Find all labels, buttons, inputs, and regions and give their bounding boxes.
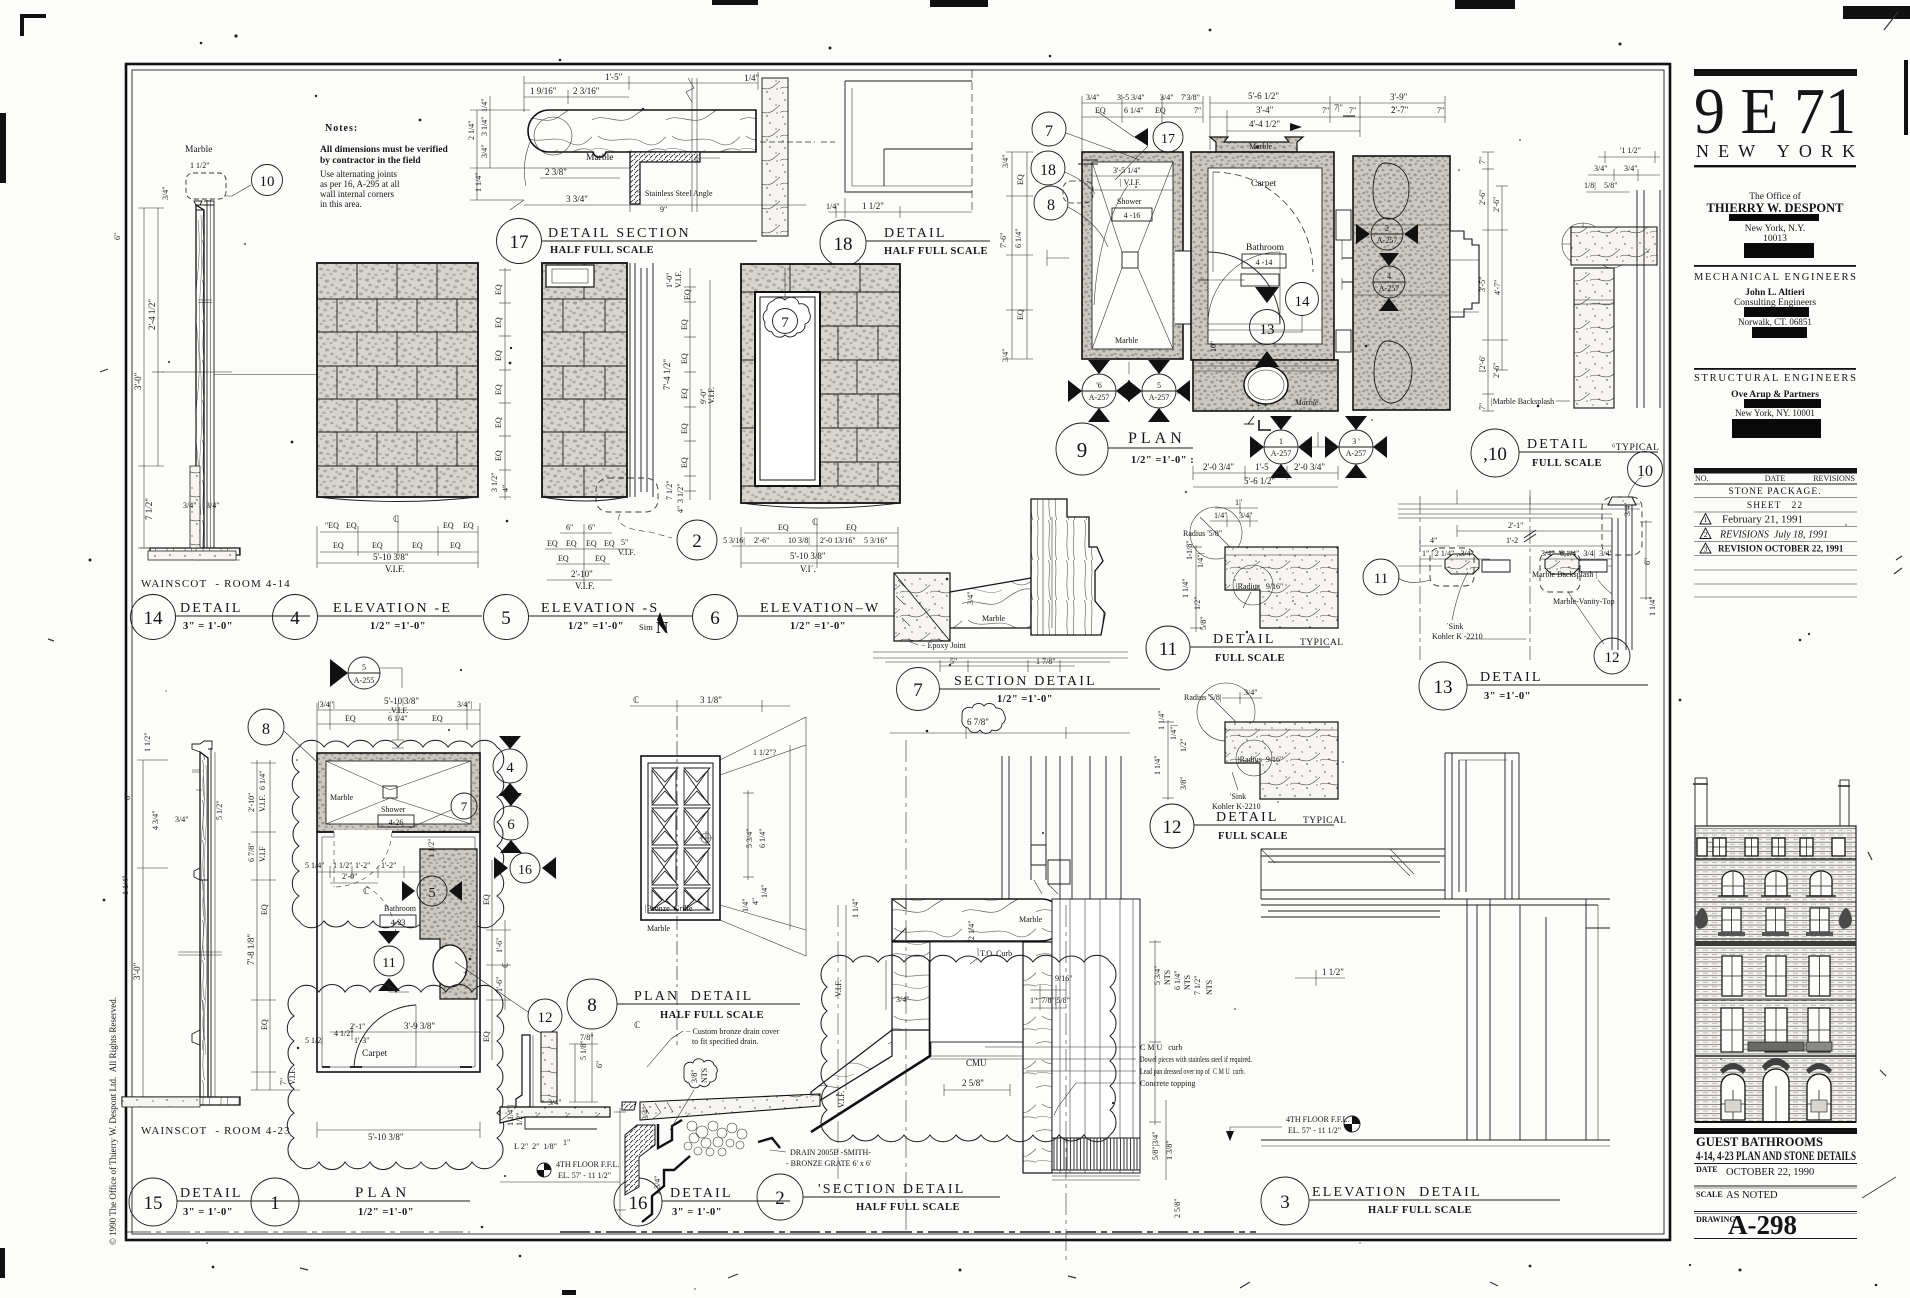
svg-text:EQ: EQ xyxy=(450,541,461,550)
svg-text:1 1/8": 1 1/8" xyxy=(1185,541,1194,561)
svg-text:|Bronze Grille: |Bronze Grille xyxy=(645,904,693,913)
sheet border frame xyxy=(126,64,1670,1240)
svg-text:Marble: Marble xyxy=(1019,915,1043,924)
top dim line xyxy=(524,72,758,112)
svg-text:1 1/4": 1 1/4" xyxy=(474,173,483,193)
svg-text:FULL SCALE: FULL SCALE xyxy=(1532,458,1602,469)
mid rail xyxy=(162,372,327,375)
svg-text:V.I.F.: V.I.F. xyxy=(674,271,683,288)
svg-text:2 1/4": 2 1/4" xyxy=(967,921,976,941)
revision cloud 7 in niche xyxy=(763,297,810,337)
svg-text:− Custom bronze drain cover: − Custom bronze drain cover xyxy=(686,1027,780,1036)
svg-text:6 1/4": 6 1/4" xyxy=(758,829,767,849)
svg-text:EQ: EQ xyxy=(778,523,789,532)
marker 5 diamond xyxy=(402,881,462,901)
rev 1 xyxy=(1700,514,1711,525)
svg-text:V.I.F.: V.I.F. xyxy=(834,980,843,997)
svg-text:13: 13 xyxy=(1260,322,1275,338)
svg-text:9/16": 9/16" xyxy=(1055,974,1073,983)
svg-text:L 2" 2" 1/8": L 2" 2" 1/8" xyxy=(514,1142,557,1151)
vertical band xyxy=(1574,268,1614,408)
door jamb right of vanity xyxy=(1450,231,1479,317)
svg-text:EQ: EQ xyxy=(346,521,357,530)
svg-text:3/4": 3/4" xyxy=(966,592,975,606)
svg-text:7: 7 xyxy=(461,799,468,814)
svg-text:EQ: EQ xyxy=(1016,309,1025,320)
stray scan diagonal xyxy=(1862,1177,1896,1198)
wainscot detail room 4-14 xyxy=(113,145,327,560)
svg-text:7": 7" xyxy=(1478,157,1487,164)
toilet alcove xyxy=(1193,360,1338,424)
svg-text:STONE PACKAGE.: STONE PACKAGE. xyxy=(1728,487,1821,497)
svg-text:3: 3 xyxy=(1280,1192,1290,1213)
svg-text:[2'-6': [2'-6' xyxy=(1478,355,1487,372)
svg-text:NTS: NTS xyxy=(1163,970,1172,985)
revision cloud xyxy=(821,955,1116,1141)
svg-text:3/4": 3/4" xyxy=(1623,503,1632,517)
svg-text:REVISION OCTOBER 22, 1991: REVISION OCTOBER 22, 1991 xyxy=(1718,544,1844,554)
svg-text:V.I.F.: V.I.F. xyxy=(258,795,267,812)
svg-text:C M U curb: C M U curb xyxy=(1140,1043,1182,1052)
svg-text:A-257: A-257 xyxy=(1149,393,1169,402)
svg-text:6 1/4": 6 1/4" xyxy=(1014,229,1023,249)
svg-text:5 3/16": 5 3/16" xyxy=(864,536,888,545)
svg-text:Marble: Marble xyxy=(586,153,613,163)
ground floor carved pediments xyxy=(1720,1063,1746,1074)
svg-text:1/2": 1/2" xyxy=(1179,739,1188,753)
marker 11 diamond xyxy=(378,931,400,991)
svg-text:WAINSCOT - ROOM 4-14: WAINSCOT - ROOM 4-14 xyxy=(141,578,291,590)
svg-text:7'-8 1/8": 7'-8 1/8" xyxy=(246,934,256,965)
svg-text:A-298: A-298 xyxy=(1728,1210,1797,1240)
drain body thick xyxy=(658,1120,682,1148)
left dims xyxy=(470,96,630,200)
dims xyxy=(1420,525,1612,552)
svg-text:2'-0": 2'-0" xyxy=(342,872,357,881)
svg-text:1: 1 xyxy=(270,1193,280,1214)
svg-text:3/4": 3/4" xyxy=(1086,93,1100,102)
svg-text:1/2" =1'-0": 1/2" =1'-0" xyxy=(568,621,624,632)
notes block xyxy=(320,123,448,209)
svg-text:2: 2 xyxy=(692,531,702,552)
svg-text:Use alternating joints: Use alternating joints xyxy=(320,169,397,179)
svg-text:6 7/8": 6 7/8" xyxy=(247,843,256,863)
svg-text:5: 5 xyxy=(429,886,436,901)
svg-text:5'-10 3/8": 5'-10 3/8" xyxy=(790,551,826,561)
1 1/2" dim xyxy=(1295,970,1345,986)
right short ticks xyxy=(1586,927,1610,929)
marker 17 with arrow xyxy=(1134,128,1148,146)
title block top bar xyxy=(1694,69,1857,76)
svg-text:6": 6" xyxy=(566,523,573,532)
svg-text:- BRONZE GRATE 6' x 6': - BRONZE GRATE 6' x 6' xyxy=(786,1159,872,1168)
svg-text:2 3/16": 2 3/16" xyxy=(573,86,600,96)
interior joint lines xyxy=(1353,225,1450,295)
svg-text:Kohler K -2210: Kohler K -2210 xyxy=(1432,632,1483,641)
svg-text:Marble: Marble xyxy=(982,614,1006,623)
svg-text:1 1/2": 1 1/2" xyxy=(190,161,210,170)
svg-text:3'-0": 3'-0" xyxy=(132,962,142,980)
side markers 4 6 16 xyxy=(493,736,556,883)
window boxes xyxy=(1718,932,1745,936)
svg-text:ELEVATION DETAIL: ELEVATION DETAIL xyxy=(1312,1185,1482,1200)
svg-text:ℂ: ℂ xyxy=(634,1020,640,1030)
svg-text:3/4": 3/4" xyxy=(1624,164,1638,173)
svg-text:1 1/4": 1 1/4" xyxy=(1157,711,1166,731)
svg-text:V.I.F.: V.I.F. xyxy=(575,581,594,591)
svg-text:1'-5: 1'-5 xyxy=(1255,462,1269,472)
svg-text:John L. Altieri: John L. Altieri xyxy=(1745,288,1805,298)
svg-text:|Marble Backsplash: |Marble Backsplash xyxy=(1491,397,1554,406)
interior markers 13 / 14 xyxy=(1250,283,1319,368)
svg-text:1/2" =1'-0": 1/2" =1'-0" xyxy=(358,1207,414,1218)
svg-text:DRAIN 2005B -SMITH-: DRAIN 2005B -SMITH- xyxy=(790,1148,871,1157)
svg-text:ℂ: ℂ xyxy=(501,962,510,968)
svg-text:Marble: Marble xyxy=(1249,142,1273,151)
marble counter slab with bullnose xyxy=(528,110,756,157)
svg-text:12: 12 xyxy=(1163,817,1182,838)
svg-text:8: 8 xyxy=(587,995,597,1016)
facade body xyxy=(1695,826,1856,1122)
svg-text:EQ: EQ xyxy=(482,1031,491,1042)
slab with bullnose xyxy=(1225,547,1338,628)
svg-text:Marble: Marble xyxy=(185,145,212,155)
svg-text:HALF FULL SCALE: HALF FULL SCALE xyxy=(856,1202,960,1213)
svg-text:A-257: A-257 xyxy=(1377,236,1397,245)
svg-text:Concrete topping: Concrete topping xyxy=(1140,1079,1195,1088)
svg-text:HALF FULL SCALE: HALF FULL SCALE xyxy=(1368,1205,1472,1216)
svg-text:3'-5": 3'-5" xyxy=(1478,277,1487,292)
left marble wall xyxy=(892,942,930,1030)
svg-text:EQ: EQ xyxy=(432,714,443,723)
base lines below xyxy=(873,652,1128,662)
svg-text:Bathroom: Bathroom xyxy=(1246,243,1285,253)
door gap in right wall xyxy=(1175,251,1191,324)
svg-text:2 5/8": 2 5/8" xyxy=(1173,1199,1182,1219)
svg-text:SHEET 22: SHEET 22 xyxy=(1747,501,1803,511)
svg-text:Carpet: Carpet xyxy=(362,1049,388,1059)
svg-text:V.I.F.: V.I.F. xyxy=(618,548,635,557)
marble threshold above bathroom xyxy=(1210,137,1303,152)
svg-text:TYPICAL: TYPICAL xyxy=(1303,816,1347,826)
tile joints right part xyxy=(741,264,900,486)
svg-text:18: 18 xyxy=(1040,162,1056,179)
door from shower vestibule, swing arc xyxy=(1208,252,1280,324)
svg-text:1": 1" xyxy=(1235,498,1242,507)
svg-text:1'-2": 1'-2" xyxy=(381,861,396,870)
svg-text:5/8"|3/4": 5/8"|3/4" xyxy=(1151,1131,1160,1160)
sink basins xyxy=(1373,163,1409,219)
svg-text:5 3/16|: 5 3/16| xyxy=(723,536,745,545)
svg-text:5 1/2|: 5 1/2| xyxy=(305,1036,323,1045)
svg-text:7 1/2": 7 1/2" xyxy=(1193,976,1202,996)
svg-text:2: 2 xyxy=(775,1188,785,1209)
sloped marble slab xyxy=(640,1094,820,1120)
svg-text:Carpet: Carpet xyxy=(1251,179,1277,189)
svg-text:1/8|: 1/8| xyxy=(1584,181,1596,190)
svg-text:1 1/4"|: 1 1/4"| xyxy=(506,1105,515,1126)
svg-text:3/8": 3/8" xyxy=(1179,777,1188,791)
svg-text:7: 7 xyxy=(913,680,923,701)
backsplash top band xyxy=(1571,227,1657,265)
svg-text:EQ: EQ xyxy=(260,1019,269,1030)
svg-text:3" = 1'-0": 3" = 1'-0" xyxy=(672,1207,722,1218)
dims below W xyxy=(732,519,898,568)
svg-text:17: 17 xyxy=(1161,132,1175,147)
svg-text:1/4"|: 1/4"| xyxy=(1169,725,1178,740)
svg-text:EQ: EQ xyxy=(1155,106,1166,115)
svg-text:15: 15 xyxy=(144,1193,163,1214)
svg-text:4 3/4": 4 3/4" xyxy=(151,811,160,831)
detail 12 title xyxy=(1150,804,1347,848)
dashed callout + circle 2 xyxy=(596,478,717,560)
rule under NEW YORK xyxy=(1694,165,1856,167)
svg-text:NTS: NTS xyxy=(1183,975,1192,990)
svg-text:1/4": 1/4" xyxy=(741,899,750,913)
svg-text:7: 7 xyxy=(781,315,789,331)
svg-text:5'-6 1/2": 5'-6 1/2" xyxy=(1244,476,1275,486)
svg-text:February 21, 1991: February 21, 1991 xyxy=(1722,514,1803,526)
svg-text:3/4": 3/4" xyxy=(206,501,220,510)
svg-text:EQ: EQ xyxy=(333,541,344,550)
top dims xyxy=(317,703,480,753)
svg-text:'SECTION DETAIL: 'SECTION DETAIL xyxy=(818,1182,966,1197)
svg-text:3/4": 3/4" xyxy=(1001,155,1010,169)
detail 11 title xyxy=(1146,626,1344,670)
svg-text:2'-0 3/4": 2'-0 3/4" xyxy=(1203,462,1234,472)
svg-text:EQ: EQ xyxy=(412,541,423,550)
elevation E title xyxy=(273,595,483,640)
3rd floor windows + statues xyxy=(1695,908,1708,929)
svg-text:6": 6" xyxy=(123,793,132,800)
door jamb xyxy=(546,265,594,287)
cap detail top xyxy=(194,201,214,205)
dims xyxy=(1586,151,1660,192)
svg-text:1" | 2 1/4" , 3/4".: 1" | 2 1/4" , 3/4". xyxy=(1422,549,1476,558)
svg-text:2 3/8": 2 3/8" xyxy=(545,167,567,177)
svg-text:PLAN: PLAN xyxy=(1128,430,1186,447)
svg-text:3/4": 3/4" xyxy=(183,501,197,510)
svg-text:+: + xyxy=(440,943,445,952)
section detail 7 title xyxy=(897,668,1161,711)
svg-text:DETAIL SECTION: DETAIL SECTION xyxy=(548,226,691,241)
svg-text:12: 12 xyxy=(538,1010,553,1026)
cornice top profile xyxy=(192,741,212,752)
detail 16 title xyxy=(614,1178,790,1226)
svg-text:5: 5 xyxy=(1157,381,1161,390)
svg-text:T.O. Curb: T.O. Curb xyxy=(980,949,1012,958)
svg-text:10013: 10013 xyxy=(1763,234,1787,244)
svg-text:18: 18 xyxy=(834,234,853,255)
svg-text:1 3/8": 1 3/8" xyxy=(1165,1141,1174,1161)
svg-text:WAINSCOT - ROOM 4-23: WAINSCOT - ROOM 4-23 xyxy=(141,1125,291,1137)
svg-text:© 1990 The Office of Thierry W: © 1990 The Office of Thierry W. Despont … xyxy=(108,997,118,1245)
svg-text:3/4": 3/4" xyxy=(1244,688,1258,697)
svg-text:to fit specified drain.: to fit specified drain. xyxy=(692,1037,759,1046)
svg-text:Radius '5/8": Radius '5/8" xyxy=(1183,529,1222,538)
custom drain note xyxy=(647,1027,780,1067)
svg-text:3 1/4": 3 1/4" xyxy=(480,117,489,137)
svg-text:1 3/4": 1 3/4" xyxy=(653,1176,662,1196)
svg-text:Stainless Steel Angle: Stainless Steel Angle xyxy=(645,189,713,198)
bottom striped strip xyxy=(1052,1138,1140,1180)
svg-text:FULL SCALE: FULL SCALE xyxy=(1218,831,1288,842)
wainscot profile body xyxy=(150,205,240,555)
svg-text:V.I.F.: V.I.F. xyxy=(288,1068,297,1085)
svg-text:3 1/2": 3 1/2" xyxy=(490,473,499,493)
svg-text:HALF FULL SCALE: HALF FULL SCALE xyxy=(550,245,654,256)
hatched floor left xyxy=(622,1102,636,1110)
svg-text:Sim: Sim xyxy=(639,622,653,632)
svg-text:3" =1'-0": 3" =1'-0" xyxy=(1484,691,1531,702)
svg-text:PLAN: PLAN xyxy=(355,1185,410,1201)
left dim column xyxy=(1006,152,1033,359)
backsplash right xyxy=(1612,505,1632,650)
svg-text:A-257: A-257 xyxy=(1379,284,1399,293)
svg-text:EQ: EQ xyxy=(586,539,597,548)
lower paneling verticals xyxy=(1467,899,1586,1140)
svg-text:1/4": 1/4" xyxy=(826,202,840,211)
svg-text:3/4": 3/4" xyxy=(548,1098,562,1107)
svg-text:− Epoxy Joint: − Epoxy Joint xyxy=(921,641,967,650)
counter front profiles xyxy=(1445,554,1479,574)
jamb profile xyxy=(516,1035,530,1107)
svg-text:EQ: EQ xyxy=(494,384,503,395)
svg-text:V.I.F.: V.I.F. xyxy=(385,564,404,574)
right EQ dims xyxy=(486,860,511,1060)
svg-text:'Sink: 'Sink xyxy=(1230,792,1246,801)
2nd floor windows xyxy=(1722,956,1830,996)
svg-text:4-23: 4-23 xyxy=(391,918,406,927)
svg-text:4": 4" xyxy=(501,485,510,492)
base marble hatch xyxy=(190,466,200,548)
rev 2 xyxy=(1700,528,1711,539)
svg-text:2'-1": 2'-1" xyxy=(1508,521,1523,530)
svg-text:1: 1 xyxy=(1704,515,1708,524)
mid moldings xyxy=(194,868,208,880)
section detail 2 title xyxy=(757,1174,1000,1220)
svg-text:3" = 1'-0": 3" = 1'-0" xyxy=(183,621,233,632)
svg-text:3'-9 3/8": 3'-9 3/8" xyxy=(404,1021,435,1031)
svg-text:Consulting Engineers: Consulting Engineers xyxy=(1734,298,1816,308)
svg-text:3" = 1'-0": 3" = 1'-0" xyxy=(183,1207,233,1218)
svg-text:3/4"|: 3/4"| xyxy=(457,700,472,709)
svg-text:6 1/4": 6 1/4" xyxy=(1173,971,1182,991)
svg-text:Notes:: Notes: xyxy=(325,123,358,134)
svg-text:EQ: EQ xyxy=(547,539,558,548)
svg-text:1": 1" xyxy=(563,1138,570,1147)
wall on right with veins xyxy=(762,78,788,236)
svg-text:wall internal corners: wall internal corners xyxy=(320,189,394,199)
ground floor arches xyxy=(1721,1069,1831,1122)
svg-text:NTS: NTS xyxy=(700,1068,709,1083)
bottom dims xyxy=(524,178,806,212)
svg-text:by contractor in the field: by contractor in the field xyxy=(320,156,421,166)
svg-text:1 1/4": 1 1/4" xyxy=(1181,579,1190,599)
svg-text:4-26: 4-26 xyxy=(389,818,404,827)
svg-text:EQ: EQ xyxy=(683,289,692,300)
bathroom 4-23 room xyxy=(305,830,562,1072)
svg-text:A-255: A-255 xyxy=(354,676,374,685)
cloud 3/8" NTS xyxy=(684,1059,717,1088)
section marker 5/A-255 xyxy=(330,657,402,689)
svg-text:3/8": 3/8" xyxy=(690,1070,699,1084)
callout circles left of plan xyxy=(1031,112,1183,247)
svg-text:14: 14 xyxy=(1295,294,1311,310)
svg-text:in this area.: in this area. xyxy=(320,199,362,209)
svg-text:CMU: CMU xyxy=(966,1058,987,1068)
grille frame xyxy=(641,756,720,920)
svg-text:5 1/8": 5 1/8" xyxy=(579,1041,588,1061)
svg-text:10: 10 xyxy=(1637,463,1653,480)
svg-text:EQ: EQ xyxy=(846,523,857,532)
svg-text:1/4": 1/4" xyxy=(744,73,760,83)
bottom dim row xyxy=(1193,466,1338,487)
svg-text:2 5/8": 2 5/8" xyxy=(962,1078,984,1088)
corridor gap between bathroom and vanity xyxy=(1336,210,1353,352)
svg-text:1 1/2": 1 1/2" xyxy=(143,733,152,753)
svg-text:5'-10|3/8": 5'-10|3/8" xyxy=(384,696,419,706)
svg-text:DETAIL: DETAIL xyxy=(180,1186,243,1201)
bottom interior line xyxy=(1208,329,1322,331)
svg-text:EQ: EQ xyxy=(680,423,689,434)
svg-text:1'-3": 1'-3" xyxy=(354,1036,369,1045)
svg-text:2'-7": 2'-7" xyxy=(1391,105,1409,115)
svg-text:1/2" =1'-0": 1/2" =1'-0" xyxy=(997,694,1053,705)
svg-text:|3/4"|: |3/4"| xyxy=(318,700,335,709)
svg-text:7": 7" xyxy=(1194,106,1201,115)
svg-text:| V.I.F.: | V.I.F. xyxy=(1120,178,1141,187)
projection lines xyxy=(720,717,806,956)
svg-text:EQ: EQ xyxy=(463,521,474,530)
svg-text:'1 1/2": '1 1/2" xyxy=(1620,146,1641,155)
svg-text:SCALE: SCALE xyxy=(1696,1190,1723,1199)
svg-text:7|": 7|" xyxy=(1334,103,1343,112)
svg-text:7": 7" xyxy=(1322,106,1329,115)
detail 17 title xyxy=(497,219,758,264)
door opening top left xyxy=(334,830,392,842)
svg-text:6": 6" xyxy=(1643,558,1652,565)
stainless steel angle xyxy=(630,152,700,204)
bottom dim xyxy=(317,1122,480,1138)
svg-text:EQ: EQ xyxy=(494,284,503,295)
svg-text:EL. 57' - 11 1/2": EL. 57' - 11 1/2" xyxy=(1288,1126,1341,1135)
corner triangle piece xyxy=(894,573,950,641)
svg-text:|Radius 9/16": |Radius 9/16" xyxy=(1238,755,1283,764)
svg-text:5": 5" xyxy=(621,538,628,547)
detail 15 title xyxy=(129,1178,310,1226)
upper jamb verticals xyxy=(1445,753,1519,899)
svg-text:DETAIL: DETAIL xyxy=(1527,437,1590,452)
svg-text:Marble Backsplash |: Marble Backsplash | xyxy=(1532,570,1597,579)
svg-text:1 9/16": 1 9/16" xyxy=(530,86,557,96)
wainscot detail room 4-23 xyxy=(121,733,240,1108)
svg-text:AS NOTED: AS NOTED xyxy=(1726,1190,1778,1201)
svg-text:5: 5 xyxy=(362,663,366,672)
gravel pocket xyxy=(684,1121,747,1156)
svg-text:11: 11 xyxy=(382,956,395,971)
crosshair circles xyxy=(1562,223,1604,265)
svg-text:5 3/4": 5 3/4" xyxy=(1153,966,1162,986)
shower floor slope diagonals xyxy=(1092,162,1173,349)
svg-text:3 1/8": 3 1/8" xyxy=(700,695,722,705)
svg-text:3'-5 1/4": 3'-5 1/4" xyxy=(1113,166,1141,175)
svg-text:4TH FLOOR F.F.L.: 4TH FLOOR F.F.L. xyxy=(1286,1115,1349,1124)
carpet door dashed arc xyxy=(1213,172,1313,272)
svg-text:5/8": 5/8" xyxy=(1604,181,1618,190)
svg-text:1 7/8": 1 7/8" xyxy=(1036,657,1056,666)
svg-text:New York, N.Y.: New York, N.Y. xyxy=(1745,224,1806,234)
